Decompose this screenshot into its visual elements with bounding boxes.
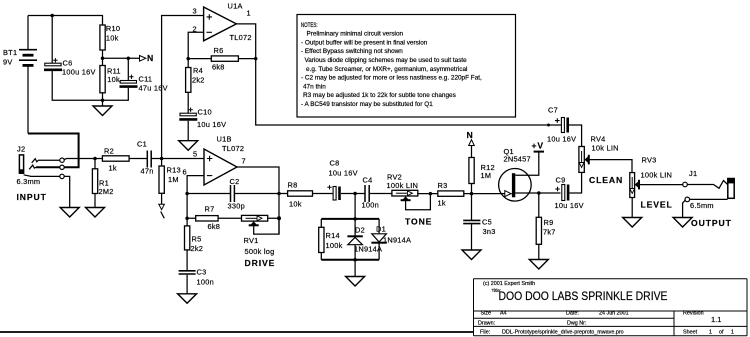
svg-text:Size: Size bbox=[481, 311, 492, 317]
svg-text:J2: J2 bbox=[17, 145, 25, 154]
svg-text:2k2: 2k2 bbox=[192, 76, 205, 85]
svg-text:500k log: 500k log bbox=[245, 247, 275, 256]
svg-text:R6: R6 bbox=[214, 46, 224, 55]
svg-text:J1: J1 bbox=[689, 169, 697, 178]
svg-text:100k LIN: 100k LIN bbox=[387, 181, 419, 190]
svg-text:10k: 10k bbox=[107, 75, 120, 84]
svg-text:R8: R8 bbox=[288, 181, 298, 190]
node R3/R12/C5 junction bbox=[470, 192, 474, 196]
svg-text:100n: 100n bbox=[362, 201, 379, 210]
svg-text:e.g. Tube Screamer, or MXR+, g: e.g. Tube Screamer, or MXR+, germanium, … bbox=[306, 66, 467, 73]
svg-text:1N914A: 1N914A bbox=[354, 245, 382, 254]
resistor R10 bbox=[100, 16, 120, 59]
svg-text:1: 1 bbox=[247, 9, 251, 18]
connector J2 input jack bbox=[17, 145, 96, 203]
svg-text:10u 16V: 10u 16V bbox=[329, 169, 358, 178]
wire U1A output to C7 run bbox=[236, 24, 561, 125]
capacitor C6 bbox=[44, 16, 103, 101]
svg-text:1: 1 bbox=[731, 330, 734, 336]
svg-text:7: 7 bbox=[242, 157, 246, 166]
transistor Q1 2N5457 bbox=[472, 147, 539, 201]
node R6/R4 junction bbox=[186, 57, 190, 61]
svg-text:47u 16V: 47u 16V bbox=[139, 84, 168, 93]
wire node A up to U1A pin3 bbox=[162, 16, 204, 159]
svg-text:C8: C8 bbox=[330, 159, 340, 168]
svg-text:CLEAN: CLEAN bbox=[589, 175, 623, 185]
op-amp U1B TL072 bbox=[183, 135, 246, 186]
capacitor C8 bbox=[327, 159, 357, 201]
svg-text:Drawn:: Drawn: bbox=[478, 321, 495, 327]
svg-text:DDL-Prototype/sprinkle_drive-p: DDL-Prototype/sprinkle_drive-preproto_mw… bbox=[502, 330, 624, 336]
svg-text:BT1: BT1 bbox=[3, 48, 17, 57]
resistor R1 bbox=[92, 159, 113, 208]
svg-text:RV4: RV4 bbox=[591, 135, 606, 144]
capacitor C2 bbox=[187, 177, 279, 211]
op-amp U1A TL072 bbox=[193, 2, 252, 43]
svg-text:- A BC549 transistor may be su: - A BC549 transistor may be substituted … bbox=[301, 101, 433, 108]
svg-text:R14: R14 bbox=[326, 231, 340, 240]
net label N above R12 bbox=[467, 130, 475, 158]
svg-text:C11: C11 bbox=[139, 75, 153, 84]
svg-text:Date:: Date: bbox=[566, 311, 579, 317]
svg-text:OUTPUT: OUTPUT bbox=[691, 218, 732, 228]
node ground junction R11/C11/C6 bbox=[101, 99, 105, 103]
svg-text:C9: C9 bbox=[556, 176, 566, 185]
svg-text:- C2 may be adjusted for more: - C2 may be adjusted for more or less na… bbox=[301, 75, 482, 82]
svg-text:C5: C5 bbox=[482, 218, 492, 227]
resistor R2 bbox=[95, 147, 147, 173]
svg-text:Preliminary minimal circuit ve: Preliminary minimal circuit version bbox=[307, 31, 404, 38]
node C6 top junction bbox=[50, 14, 54, 18]
svg-text:100u 16V: 100u 16V bbox=[62, 68, 96, 77]
wire clipping branch down bbox=[354, 194, 356, 219]
svg-text:1.1: 1.1 bbox=[711, 315, 721, 324]
notes box bbox=[297, 15, 516, 118]
svg-text:NOTES:: NOTES: bbox=[301, 22, 318, 29]
svg-text:- Output buffer will be presen: - Output buffer will be present in final… bbox=[301, 39, 428, 46]
svg-text:C3: C3 bbox=[197, 268, 207, 277]
potentiometer RV2 100k LIN TONE bbox=[387, 173, 433, 227]
title block text bbox=[478, 281, 734, 336]
node C2 left junction bbox=[185, 192, 189, 196]
resistor R13 bbox=[159, 159, 181, 205]
page bottom border bbox=[0, 331, 474, 333]
svg-text:C4: C4 bbox=[363, 176, 373, 185]
ground G8 bbox=[462, 250, 481, 260]
power +V bbox=[532, 141, 545, 152]
svg-text:1M: 1M bbox=[481, 171, 492, 180]
ground G9 bbox=[529, 260, 548, 270]
svg-text:R5: R5 bbox=[192, 235, 202, 244]
wire jack sleeve to ground bbox=[64, 176, 69, 207]
svg-text:Various diode clipping schemes: Various diode clipping schemes may be us… bbox=[305, 57, 468, 64]
svg-text:3n3: 3n3 bbox=[483, 227, 496, 236]
ground G11 bbox=[673, 218, 692, 228]
potentiometer RV3 100k LIN LEVEL bbox=[630, 156, 683, 218]
svg-text:2N5457: 2N5457 bbox=[504, 155, 531, 164]
diode D1 1N914A bbox=[371, 219, 411, 260]
svg-text:1N914A: 1N914A bbox=[383, 236, 411, 245]
wire battery rail +V bbox=[28, 15, 103, 17]
node RV2 right junction bbox=[429, 192, 433, 196]
svg-text:1: 1 bbox=[709, 330, 712, 336]
svg-text:File:: File: bbox=[480, 330, 490, 336]
node R1/R2 junction bbox=[93, 157, 97, 161]
node C2 right junction bbox=[277, 192, 281, 196]
diode D2 1N914A bbox=[347, 219, 382, 260]
svg-text:47n: 47n bbox=[141, 167, 154, 176]
svg-text:D2: D2 bbox=[355, 226, 365, 235]
svg-text:Sheet: Sheet bbox=[683, 330, 698, 336]
svg-text:INPUT: INPUT bbox=[17, 192, 47, 202]
resistor R11 bbox=[100, 58, 121, 100]
resistor R3 bbox=[430, 181, 471, 208]
capacitor C9 bbox=[539, 172, 584, 210]
svg-text:DRIVE: DRIVE bbox=[245, 258, 276, 268]
resistor R9 bbox=[536, 193, 555, 260]
ground G10 bbox=[623, 218, 642, 228]
svg-text:TONE: TONE bbox=[405, 217, 432, 227]
svg-text:Dwg Nr:: Dwg Nr: bbox=[567, 321, 586, 327]
svg-text:R4: R4 bbox=[193, 66, 203, 75]
svg-text:C1: C1 bbox=[137, 140, 147, 149]
wire clip bottom row bbox=[321, 259, 379, 261]
resistor R7 bbox=[187, 205, 241, 232]
svg-text:10u 16V: 10u 16V bbox=[555, 201, 584, 210]
node A input node bbox=[160, 157, 164, 161]
svg-text:RV3: RV3 bbox=[642, 156, 657, 165]
svg-text:of: of bbox=[719, 330, 724, 336]
node RV1 right junction bbox=[277, 216, 281, 220]
svg-text:47n thin: 47n thin bbox=[303, 83, 326, 90]
svg-text:1k: 1k bbox=[438, 199, 446, 208]
svg-text:R2: R2 bbox=[104, 147, 114, 156]
node clip bottom bbox=[353, 258, 357, 262]
svg-text:10u 16V: 10u 16V bbox=[197, 120, 226, 129]
svg-text:10k: 10k bbox=[106, 34, 119, 43]
potentiometer RV1 500k log DRIVE bbox=[242, 215, 280, 268]
svg-text:6.5mm: 6.5mm bbox=[690, 201, 714, 210]
svg-text:A4: A4 bbox=[500, 311, 507, 317]
capacitor C4 bbox=[355, 176, 392, 210]
svg-text:TL072: TL072 bbox=[230, 33, 252, 42]
wire clip top row bbox=[321, 218, 379, 220]
capacitor C10 bbox=[179, 108, 226, 141]
svg-text:D1: D1 bbox=[376, 225, 386, 234]
capacitor C7 bbox=[547, 106, 582, 147]
wire U1B output column bbox=[237, 167, 279, 234]
ground G5 bbox=[178, 294, 197, 304]
svg-text:TL072: TL072 bbox=[222, 144, 244, 153]
svg-text:5: 5 bbox=[193, 150, 197, 159]
svg-text:R3: R3 bbox=[438, 181, 448, 190]
wire battery negative to jack ring bbox=[28, 134, 79, 168]
svg-text:- Effect Bypass switching not: - Effect Bypass switching not shown bbox=[301, 48, 403, 55]
svg-text:U1A: U1A bbox=[228, 2, 243, 11]
svg-text:6k8: 6k8 bbox=[208, 222, 221, 231]
capacitor C11 bbox=[103, 57, 168, 101]
svg-text:Revision: Revision bbox=[683, 311, 704, 317]
svg-text:LEVEL: LEVEL bbox=[641, 200, 673, 210]
svg-text:330p: 330p bbox=[228, 202, 245, 211]
ground G7 bbox=[346, 277, 365, 287]
svg-text:C7: C7 bbox=[548, 106, 558, 115]
resistor R5 bbox=[185, 226, 204, 271]
resistor R4 bbox=[186, 59, 205, 113]
net label N (bias) bbox=[103, 53, 155, 63]
svg-text:7k7: 7k7 bbox=[543, 228, 556, 237]
svg-text:2k2: 2k2 bbox=[191, 244, 204, 253]
node N junction bbox=[101, 57, 105, 61]
connector J1 output jack bbox=[683, 169, 735, 228]
svg-text:R10: R10 bbox=[106, 24, 120, 33]
svg-text:DOO DOO LABS SPRINKLE DRIVE: DOO DOO LABS SPRINKLE DRIVE bbox=[499, 290, 668, 303]
svg-text:2M2: 2M2 bbox=[99, 187, 114, 196]
wire U1B pin6 column bbox=[187, 176, 204, 226]
resistor R12 bbox=[469, 158, 495, 194]
capacitor C5 bbox=[463, 194, 495, 250]
svg-text:U1B: U1B bbox=[217, 135, 232, 144]
net arrow X below R13 bbox=[159, 204, 165, 218]
potentiometer RV4 10k LIN CLEAN bbox=[579, 135, 632, 186]
svg-text:6.3mm: 6.3mm bbox=[17, 177, 41, 186]
svg-text:100k LIN: 100k LIN bbox=[641, 171, 673, 180]
svg-text:+V: +V bbox=[532, 141, 545, 151]
node clip top row bbox=[353, 217, 357, 221]
svg-text:10u 16V: 10u 16V bbox=[547, 135, 576, 144]
svg-text:(c) 2001 Expert Smith: (c) 2001 Expert Smith bbox=[483, 281, 535, 287]
resistor R14 bbox=[319, 219, 343, 260]
ground G2 bbox=[60, 208, 79, 218]
wire node A to U1B pin5 bbox=[162, 158, 204, 160]
svg-text:1M: 1M bbox=[168, 175, 179, 184]
svg-text:1k: 1k bbox=[109, 164, 117, 173]
svg-text:10k LIN: 10k LIN bbox=[592, 144, 619, 153]
svg-text:100n: 100n bbox=[197, 278, 214, 287]
svg-text:N: N bbox=[147, 53, 154, 63]
svg-text:R7: R7 bbox=[205, 205, 215, 214]
svg-text:C2: C2 bbox=[230, 177, 240, 186]
svg-text:100k: 100k bbox=[326, 241, 343, 250]
resistor R8 bbox=[279, 181, 333, 209]
svg-text:R3 may be adjusted 1k to 22k f: R3 may be adjusted 1k to 22k for subtle … bbox=[303, 92, 456, 99]
svg-text:N: N bbox=[467, 130, 474, 140]
svg-text:10k: 10k bbox=[289, 200, 302, 209]
title block frame bbox=[474, 279, 748, 336]
resistor R6 bbox=[188, 46, 256, 72]
svg-text:6: 6 bbox=[183, 168, 187, 177]
svg-text:C10: C10 bbox=[198, 108, 212, 117]
svg-text:6k8: 6k8 bbox=[212, 63, 225, 72]
svg-text:R13: R13 bbox=[167, 166, 181, 175]
svg-text:RV1: RV1 bbox=[244, 236, 259, 245]
capacitor C1 bbox=[137, 140, 162, 176]
node Q1 source junction bbox=[537, 191, 541, 195]
node U1A output junction bbox=[254, 57, 258, 61]
ground G3 bbox=[86, 208, 105, 218]
ground G1 bbox=[93, 100, 112, 115]
svg-text:9V: 9V bbox=[3, 58, 13, 67]
svg-text:C6: C6 bbox=[63, 59, 73, 68]
svg-text:R9: R9 bbox=[544, 218, 554, 227]
node R7 left junction bbox=[185, 217, 189, 221]
node clipping junction bbox=[353, 192, 357, 196]
wire U1A pin2 feedback bbox=[188, 32, 203, 58]
svg-text:3: 3 bbox=[193, 7, 197, 16]
wire clip to ground bbox=[354, 260, 356, 277]
capacitor C3 bbox=[179, 268, 214, 294]
battery BT1 bbox=[3, 16, 37, 134]
svg-text:24 Jun 2001: 24 Jun 2001 bbox=[599, 311, 629, 317]
ground G4 bbox=[179, 141, 198, 151]
